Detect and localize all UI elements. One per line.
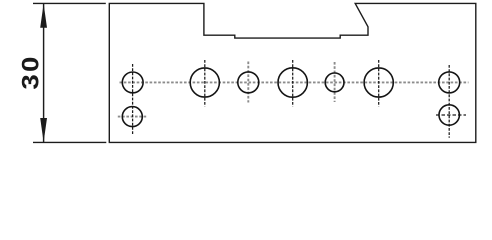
extension line top	[33, 2, 106, 4]
vertical centerline right hole pair C7/C9	[448, 65, 450, 138]
extension line bottom	[33, 141, 106, 143]
arrowhead bottom	[40, 118, 47, 142]
vertical centerline hole C2	[204, 60, 206, 107]
hole C8	[122, 107, 142, 127]
part outline (plate with stepped notch)	[109, 3, 476, 142]
horizontal centerline hole C9	[436, 114, 466, 116]
hole C3	[238, 72, 259, 93]
vertical centerline hole C4	[292, 60, 294, 107]
vertical centerline hole C3	[247, 62, 249, 103]
hole C5	[325, 73, 344, 92]
hole C9	[439, 105, 459, 125]
dimension line 30	[43, 3, 45, 142]
svg-text:30: 30	[18, 54, 44, 89]
horizontal centerline (main hole row)	[120, 81, 469, 83]
hole C1	[122, 72, 143, 93]
hole C4	[278, 68, 307, 97]
horizontal centerline hole C8	[118, 116, 147, 118]
vertical centerline hole C5	[334, 62, 336, 102]
hole C2	[190, 68, 219, 97]
vertical centerline hole C6	[378, 60, 380, 107]
hole C7	[439, 72, 460, 93]
hole C6	[364, 68, 393, 97]
vertical centerline left hole pair C1/C8	[132, 64, 134, 135]
arrowhead top	[40, 4, 47, 28]
